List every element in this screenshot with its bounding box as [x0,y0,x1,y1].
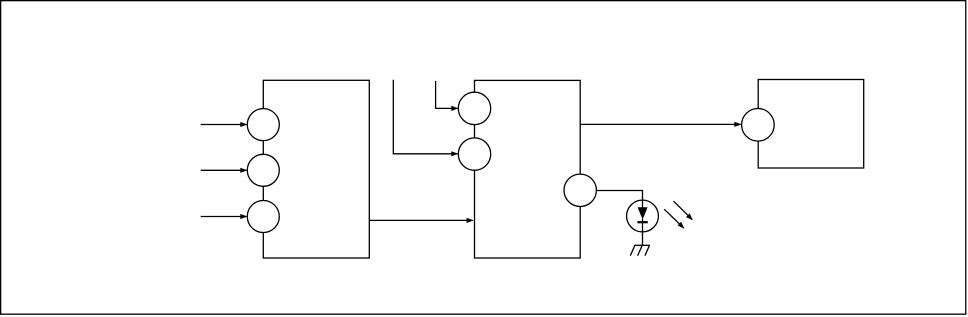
input arrow 1 (wire into left block port 1) [201,122,248,127]
LED D1 cathode bar [637,221,647,223]
port circle P6 on middle block (right edge) [564,174,596,206]
wire from port P6 to LED D1 [596,191,642,202]
port circle P2 on left block [247,154,279,186]
wire B (L-shaped wire into middle block upper port) [436,81,459,111]
port circle P1 on left block [247,109,279,141]
port circle P4 on middle block (upper left) [458,92,490,124]
input arrow 2 (wire into left block port 2) [201,168,248,173]
port circle P3 on left block [247,201,279,233]
LED D1 diode triangle [638,207,648,219]
port circle P5 on middle block (lower left) [458,138,490,170]
LED D1 cathode wire to ground [642,219,644,245]
wire A (L-shaped wire into middle block lower port) [393,80,458,157]
block U1 (left block) [263,80,369,258]
port circle P7 on right block [742,109,775,142]
wire: arrow from left block to middle block [369,218,473,223]
light ray arrow 2 (LED emission) [664,209,684,228]
block U3 (right block) [758,80,864,169]
wire: arrow from middle block to right block port [580,122,741,127]
LED D1 (circle) [627,200,659,232]
input arrow 3 (wire into left block port 3) [201,214,248,219]
LED D1 anode wire [642,200,644,208]
light ray arrow 1 (LED emission) [674,201,693,220]
ground (chassis ground symbol) [630,245,650,255]
block U2 (middle block) [475,80,581,258]
